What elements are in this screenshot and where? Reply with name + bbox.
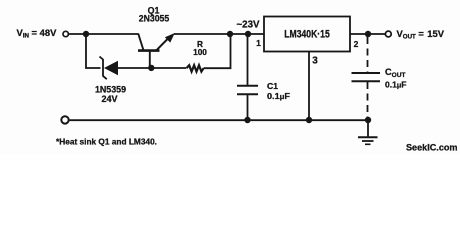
zener diode D1 [100, 57, 119, 80]
node resistor-top junction [227, 31, 233, 37]
svg-text:3: 3 [312, 56, 318, 67]
node C1 bottom junction [244, 117, 250, 123]
svg-text:0.1μF: 0.1μF [385, 80, 407, 90]
svg-text:100: 100 [193, 47, 207, 57]
node COUT bottom junction [365, 117, 371, 123]
node base junction [148, 65, 154, 71]
svg-text:1: 1 [256, 38, 261, 48]
svg-text:1N5359: 1N5359 [95, 84, 126, 94]
svg-text:VIN = 48V: VIN = 48V [17, 27, 58, 40]
ground/common terminal [61, 116, 68, 123]
regulator U1 box [264, 17, 350, 52]
svg-text:LM340K·15: LM340K·15 [284, 29, 330, 41]
node pin3 bottom junction [306, 117, 312, 123]
capacitor C1 [237, 34, 258, 120]
node output junction [365, 31, 371, 37]
wire regulator output [350, 33, 385, 35]
svg-text:~23V: ~23V [237, 19, 260, 30]
svg-text:24V: 24V [101, 94, 117, 104]
svg-text:0.1μF: 0.1μF [267, 91, 290, 101]
output terminal [385, 31, 391, 37]
wire zener to resistor [118, 67, 186, 69]
svg-text:SeekIC.com: SeekIC.com [406, 143, 458, 153]
resistor R [186, 65, 203, 71]
svg-text:*Heat sink Q1 and LM340.: *Heat sink Q1 and LM340. [56, 137, 157, 146]
wire emitter to regulator pin 1 [174, 33, 264, 35]
pin 3 ground lead [308, 52, 310, 121]
wire input to junction [68, 33, 86, 35]
node input junction [83, 31, 89, 37]
wire VIN branch down to zener [86, 33, 101, 68]
svg-text:2N3055: 2N3055 [139, 14, 170, 24]
capacitor COUT (dashed leads) [352, 37, 381, 119]
svg-text:C1: C1 [267, 81, 278, 91]
ground rail wire [70, 119, 369, 121]
svg-text:2: 2 [354, 39, 359, 49]
wire collector lead [86, 33, 139, 35]
input terminal (+) [63, 31, 68, 36]
wire resistor to top rail riser [204, 34, 231, 68]
node C1-top junction [245, 31, 251, 37]
transistor Q1 [138, 33, 175, 68]
ground symbol [358, 120, 378, 144]
